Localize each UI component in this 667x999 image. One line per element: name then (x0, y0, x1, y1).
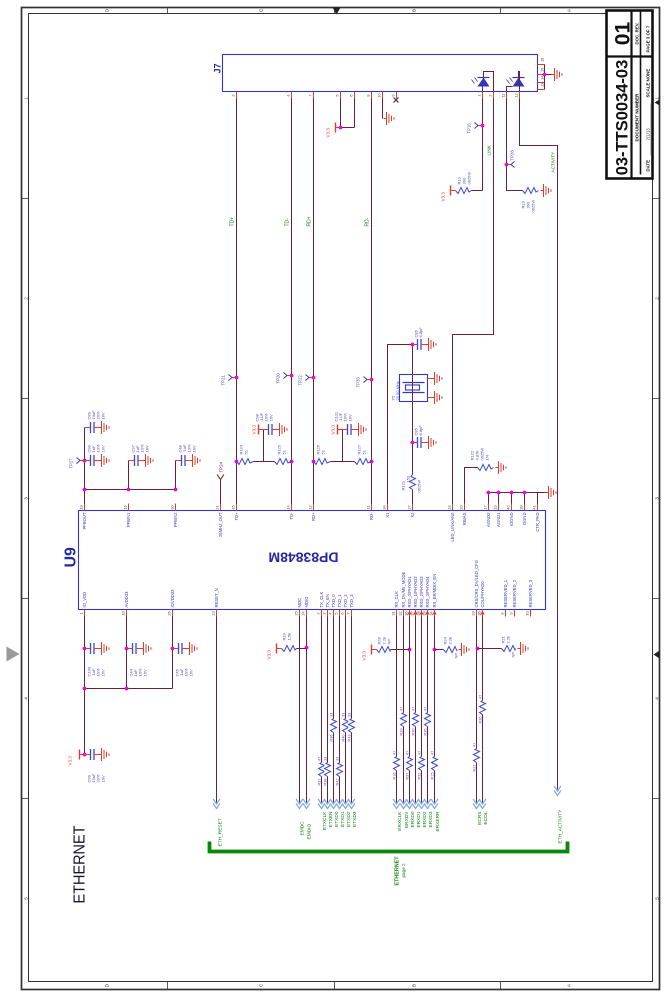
svg-text:page 2: page 2 (401, 863, 406, 877)
svg-text:2.2k: 2.2k (448, 637, 453, 645)
svg-text:10: 10 (525, 611, 530, 616)
junction J7 shield (543, 73, 547, 77)
svg-text:EMDC: EMDC (300, 821, 306, 836)
svg-text:51: 51 (321, 449, 326, 454)
U9 pin 15 TD+ (231, 504, 239, 521)
U9 pin 2 TX_CLK (316, 591, 324, 616)
test point TP22 (306, 375, 314, 381)
net arrow ERXD0 (406, 799, 413, 809)
resistor R26 (478, 695, 485, 724)
junction R19 (305, 646, 309, 650)
svg-text:R18: R18 (392, 773, 396, 780)
U9 pin 11 RD- (366, 504, 374, 520)
wire ERXERR (434, 617, 436, 803)
svg-text:25MHz_OUT: 25MHz_OUT (218, 512, 223, 537)
svg-text:47: 47 (430, 751, 434, 755)
junction TD+ TP21 (235, 376, 239, 380)
svg-text:RD+: RD+ (307, 216, 313, 226)
svg-text:TXD_0: TXD_0 (331, 594, 336, 608)
wire LED_LINK pin22 to J7 pin2 (453, 99, 494, 504)
bus label ETHERNET page 2 (395, 856, 407, 886)
net arrow EMDIO (303, 799, 310, 809)
ground U9 gnd pins (546, 486, 557, 499)
svg-text:TD+: TD+ (230, 217, 236, 227)
resistor R125 (275, 444, 292, 464)
junction TD+ R124 (235, 460, 239, 464)
resistor R22 (472, 743, 479, 772)
J7 pin 7 (308, 92, 314, 99)
svg-text:40: 40 (506, 505, 511, 510)
wire 25MHz_OUT to TP24 (220, 480, 222, 504)
svg-text:PFBIN2: PFBIN2 (173, 512, 178, 527)
svg-text:J7: J7 (213, 63, 223, 73)
ground R23 (541, 184, 552, 197)
svg-text:TXD_2: TXD_2 (343, 594, 348, 608)
svg-text:R22: R22 (472, 765, 476, 772)
svg-text:X2: X2 (410, 512, 415, 518)
net arrow ETH_ACTIVITY (554, 786, 561, 796)
svg-text:47: 47 (478, 695, 482, 699)
J7 pin 1 (477, 92, 483, 99)
net arrow ERXD1 (412, 799, 419, 809)
title block (607, 11, 653, 179)
net arrow ETXD0 (330, 799, 337, 809)
svg-text:1%: 1% (485, 454, 490, 460)
junction TP27 (83, 459, 87, 463)
svg-text:2: 2 (316, 612, 321, 614)
svg-text:IOVDD33: IOVDD33 (170, 589, 175, 608)
svg-text:CRS/CRS_DV/LED_CFG: CRS/CRS_DV/LED_CFG (474, 560, 479, 607)
ground C101 (356, 423, 367, 436)
no-connect J7 pin 9 (394, 98, 399, 103)
svg-text:AVDD33: AVDD33 (124, 591, 129, 608)
svg-text:15: 15 (540, 68, 545, 72)
wire RBIAS to R122 (465, 468, 478, 504)
svg-text:51: 51 (362, 449, 367, 454)
resistor R126 (314, 444, 331, 464)
junction gnd b (497, 491, 501, 495)
wire U9 analog ground bus (487, 493, 546, 504)
wire RD+ net (313, 99, 315, 504)
wire crystal net (412, 345, 414, 475)
net arrow ERXERR (431, 799, 438, 809)
wire MDC (299, 617, 301, 803)
svg-text:16: 16 (123, 505, 128, 509)
wire MDIO (306, 617, 308, 803)
svg-text:V3.3: V3.3 (252, 425, 257, 435)
svg-text:2: 2 (24, 297, 29, 300)
svg-text:4: 4 (328, 612, 333, 615)
svg-text:D: D (105, 8, 110, 12)
svg-text:TX_CLK: TX_CLK (319, 591, 324, 607)
resistor R30 (411, 707, 418, 736)
U9 pin 9 RESERVED_2 (509, 579, 517, 616)
svg-text:C: C (259, 983, 264, 987)
power V3.3 R19 (267, 644, 282, 660)
svg-text:MDIO: MDIO (304, 596, 309, 608)
svg-text:TP28: TP28 (510, 150, 515, 161)
ground crystal case right (428, 378, 432, 380)
test point TP27 (77, 458, 85, 464)
resistor R35 (423, 707, 430, 736)
junction PFBOUT bus b (127, 488, 131, 492)
svg-text:32: 32 (398, 611, 403, 615)
J7 pin 10 (377, 92, 383, 99)
svg-text:RX_DV/MII_MODE: RX_DV/MII_MODE (401, 571, 406, 607)
U9 pin 30 PFBIN2 (170, 504, 178, 528)
resistor R124 (237, 444, 254, 464)
svg-text:16V: 16V (100, 412, 105, 419)
svg-text:34: 34 (382, 505, 387, 510)
svg-text:RESERVED_1: RESERVED_1 (503, 579, 508, 607)
svg-text:V3.3: V3.3 (331, 425, 336, 435)
svg-text:DATE: DATE (646, 160, 651, 172)
svg-text:9: 9 (509, 612, 514, 614)
wire ETXD3 (351, 617, 353, 803)
svg-text:RXD_1/PHYAD2: RXD_1/PHYAD2 (413, 576, 418, 608)
capacitor C85 (413, 437, 426, 448)
svg-text:19: 19 (79, 505, 84, 509)
svg-text:22: 22 (447, 505, 452, 509)
U9 pin 17 AGND2 (483, 504, 491, 527)
wire ERXDV (403, 617, 405, 803)
U9 pin 1 IO_VDD (79, 592, 87, 617)
svg-text:16: 16 (540, 58, 545, 62)
resistor R38 (323, 757, 330, 786)
power V3.3 R10 (441, 186, 456, 202)
svg-text:3: 3 (322, 612, 327, 614)
svg-text:TX_EN: TX_EN (325, 594, 330, 608)
wire ERXD1 (415, 617, 417, 803)
U9 pin 32 RX_DV/MII_MODE (398, 571, 406, 616)
net arrow ECRS (473, 799, 480, 809)
ground C85 (426, 436, 437, 449)
svg-text:23: 23 (211, 611, 216, 615)
U9 pin 10 RESERVED_3 (525, 579, 533, 616)
svg-text:1: 1 (655, 97, 660, 100)
wire ERXD2 (421, 617, 423, 803)
svg-text:ETXD0: ETXD0 (334, 811, 340, 827)
wire X2 to R121 (412, 490, 414, 504)
resistor R18 (392, 751, 399, 780)
J7 pin 3 (231, 92, 237, 99)
svg-text:37: 37 (410, 611, 415, 615)
svg-text:20: 20 (459, 505, 464, 510)
resistor R19 pull-up (282, 632, 307, 651)
wire J7 pin12 ETH_ACTIVITY (520, 99, 558, 790)
ground C97 (143, 454, 154, 467)
svg-text:1: 1 (24, 97, 29, 100)
U9 pin 36 RXD_0/PHYAD1 (404, 576, 412, 617)
svg-text:DP83848M: DP83848M (269, 550, 339, 566)
U9 pin 13 AGND1 (493, 504, 501, 527)
svg-text:AGND2: AGND2 (486, 512, 491, 527)
junction V3.3 main (83, 753, 87, 757)
wire ERXD3 (427, 617, 429, 803)
J7 pin 6 (349, 92, 355, 99)
svg-text:12: 12 (308, 505, 313, 509)
svg-text:V3.3: V3.3 (326, 128, 331, 138)
svg-text:10V: 10V (100, 775, 105, 782)
svg-text:2/1/13: 2/1/13 (646, 128, 651, 141)
J7 pin 13 (538, 83, 545, 90)
svg-text:15: 15 (231, 505, 236, 509)
svg-text:31: 31 (391, 611, 396, 615)
svg-text:ETHERNET: ETHERNET (395, 856, 401, 886)
svg-text:33: 33 (471, 611, 476, 615)
svg-text:24: 24 (301, 611, 306, 616)
svg-text:47: 47 (423, 707, 427, 711)
U9 pin 26 IOVDD33 (167, 589, 175, 617)
svg-text:16V: 16V (100, 445, 105, 452)
svg-text:TXD_1: TXD_1 (337, 594, 342, 608)
svg-text:5: 5 (24, 897, 29, 900)
junction C44 (125, 647, 129, 651)
svg-text:RXD_2/PHYAD3: RXD_2/PHYAD3 (419, 576, 424, 608)
resistor R10 (456, 172, 472, 194)
svg-text:47: 47 (399, 707, 403, 711)
junction iovdd a (83, 687, 87, 691)
svg-text:ETHERNET: ETHERNET (72, 825, 89, 903)
J7 pin 16 (538, 58, 545, 65)
svg-text:TD+: TD+ (234, 512, 239, 521)
svg-text:ETXCLK: ETXCLK (322, 811, 328, 830)
svg-text:ECOL: ECOL (483, 811, 489, 824)
svg-text:B: B (412, 984, 417, 987)
resistor R28 pull-up NP (377, 636, 412, 652)
svg-text:36: 36 (477, 611, 482, 615)
svg-text:RD-: RD- (365, 217, 371, 226)
capacitor C97 (129, 455, 143, 466)
svg-text:2: 2 (655, 297, 660, 300)
svg-text:IOGND: IOGND (509, 513, 514, 527)
svg-text:ERXDV: ERXDV (404, 811, 410, 828)
svg-text:RX_CLK: RX_CLK (394, 591, 399, 607)
svg-text:ETXD3: ETXD3 (352, 811, 358, 827)
junction C100 (83, 647, 87, 651)
svg-text:8: 8 (366, 94, 371, 96)
svg-text:TP21: TP21 (221, 375, 226, 386)
U9 pin 14 TD- (286, 504, 294, 520)
wire J7 pin 10 ground (382, 99, 384, 119)
junction gnd c (510, 491, 514, 495)
resistor R37 (317, 757, 324, 786)
svg-text:33: 33 (335, 757, 339, 761)
svg-text:R40: R40 (341, 735, 345, 742)
svg-text:NP: NP (387, 639, 392, 645)
ground C99 (99, 748, 110, 761)
svg-text:1: 1 (79, 612, 84, 614)
svg-text:47: 47 (417, 751, 421, 755)
junction V3.3 J7 (339, 126, 343, 130)
wire J7 pin11 to R23 (507, 99, 523, 191)
J7 pin 12 (514, 92, 520, 99)
svg-text:TP33: TP33 (356, 377, 361, 388)
svg-text:DOC. REV.: DOC. REV. (635, 22, 640, 44)
svg-text:5: 5 (335, 94, 340, 96)
svg-text:51: 51 (282, 449, 287, 454)
LED inside J7 (link) (472, 78, 490, 87)
svg-text:RXD_3/PHYAD4: RXD_3/PHYAD4 (425, 576, 430, 608)
junction PFBOUT bus c (174, 488, 178, 492)
U9 pin 16 PFBIN1 (123, 504, 131, 528)
svg-text:RD+: RD+ (311, 512, 316, 521)
svg-text:LED_LINK/AN0: LED_LINK/AN0 (450, 512, 455, 542)
wire J7 pin1 LED link cathode (482, 99, 484, 191)
svg-text:A: A (567, 8, 572, 12)
svg-text:150: 150 (406, 475, 411, 482)
svg-text:ERXERR: ERXERR (435, 811, 441, 832)
U9 pin 19 PFBOUT (79, 504, 87, 530)
svg-text:11: 11 (501, 93, 506, 97)
power V3.3 J7 center tap (326, 123, 341, 138)
svg-text:3: 3 (24, 497, 29, 500)
connector J7 body (223, 55, 538, 92)
U9 pin 27 X2 (407, 504, 415, 518)
junction PFBOUT bus a (83, 488, 87, 492)
wire TD- net (291, 99, 293, 504)
svg-text:R20: R20 (399, 729, 403, 736)
svg-text:ETH_RESET: ETH_RESET (218, 818, 224, 846)
svg-text:ERXD1: ERXD1 (416, 811, 422, 827)
resistor R43 (347, 713, 354, 742)
U9 pin 24 MDIO (301, 596, 309, 617)
svg-text:7: 7 (346, 612, 351, 614)
capacitor C86 (413, 339, 426, 350)
J7 pin 5 (335, 92, 341, 99)
svg-text:13: 13 (493, 505, 498, 509)
svg-text:ERXD2: ERXD2 (422, 811, 428, 827)
wire J7 pins 5-6 V3.3 (341, 99, 355, 128)
svg-text:34: 34 (429, 611, 434, 616)
svg-text:RESERVED_2: RESERVED_2 (512, 579, 517, 607)
svg-text:47: 47 (405, 751, 409, 755)
svg-text:B: B (412, 9, 417, 12)
ground C98 (277, 423, 288, 436)
svg-text:TXD_3: TXD_3 (349, 594, 354, 608)
net arrow ERXD2 (418, 799, 425, 809)
svg-text:U9: U9 (63, 547, 80, 568)
svg-text:13: 13 (540, 83, 545, 87)
test point TP20 (284, 373, 292, 379)
svg-text:RBIAS: RBIAS (462, 512, 467, 525)
svg-text:EMDIO: EMDIO (307, 824, 313, 840)
svg-text:TD-: TD- (285, 218, 291, 227)
svg-text:TP16: TP16 (467, 123, 472, 134)
IC U9 DP83848M chip body (79, 511, 546, 610)
svg-text:IO_VDD: IO_VDD (82, 592, 87, 608)
svg-text:25.00 MHz: 25.00 MHz (395, 381, 400, 400)
capacitor C101 (343, 424, 356, 435)
svg-text:ERXCLK: ERXCLK (397, 811, 403, 831)
svg-text:R32: R32 (417, 773, 421, 780)
svg-text:RESET_N: RESET_N (214, 588, 219, 607)
net arrow ETXD3 (348, 799, 355, 809)
svg-text:RD-: RD- (369, 512, 374, 520)
U9 pin 34 X1 (382, 504, 390, 518)
svg-text:TP24: TP24 (219, 461, 224, 472)
svg-text:RESERVED_3: RESERVED_3 (528, 579, 533, 607)
U9 pin 12 RD+ (308, 504, 316, 522)
resistor R32 (417, 751, 424, 780)
J7 pin 2 (488, 92, 494, 99)
ground R122 (496, 461, 507, 474)
svg-text:16V: 16V (100, 669, 105, 676)
U9 pin 36 COL/PHYAD0 (477, 581, 485, 617)
svg-text:ERXD3: ERXD3 (428, 811, 434, 827)
svg-text:7: 7 (308, 94, 313, 96)
svg-text:33: 33 (341, 713, 345, 717)
svg-text:DGND: DGND (522, 513, 527, 525)
junction C85 (411, 441, 415, 445)
resistor R36 (329, 713, 336, 742)
capacitor C45 (173, 643, 187, 654)
power V3.3 main (68, 750, 85, 766)
svg-text:V3.3: V3.3 (441, 192, 446, 202)
svg-text:1.5k: 1.5k (287, 633, 292, 641)
svg-text:PFBIN1: PFBIN1 (126, 512, 131, 527)
U9 pin 25 MDC (294, 598, 302, 617)
svg-text:5: 5 (334, 612, 339, 614)
U9 pin 22 LED_LINK/AN0 (447, 504, 455, 542)
svg-text:4: 4 (24, 697, 29, 700)
svg-text:51: 51 (244, 449, 249, 454)
svg-text:LINK: LINK (487, 144, 492, 155)
U9 pin 39 DGND (519, 504, 527, 525)
junction RD+ TP22 (312, 376, 316, 380)
svg-text:TD-: TD- (289, 512, 294, 520)
svg-text:X1: X1 (385, 512, 390, 518)
net arrow TP24 (217, 475, 224, 480)
svg-text:47: 47 (392, 751, 396, 755)
wire RD termination node (331, 430, 355, 462)
svg-text:16V: 16V (347, 414, 352, 421)
svg-text:4: 4 (655, 697, 660, 700)
svg-text:16V: 16V (142, 669, 147, 676)
svg-text:8: 8 (500, 612, 505, 614)
svg-text:30: 30 (170, 505, 175, 510)
capacitor C100 (85, 643, 99, 654)
wire RD- net (371, 99, 373, 504)
wire ERXD0 (409, 617, 411, 803)
resistor R40 (341, 713, 348, 742)
svg-text:17: 17 (483, 505, 488, 509)
J7 shield pins 13-16 ground wire (545, 65, 552, 90)
svg-text:14: 14 (286, 505, 291, 510)
svg-text:5: 5 (655, 897, 660, 900)
U9 pin 6 TXD_2 (340, 594, 348, 617)
ground R21 (518, 642, 529, 655)
resistor R21 pull-down NP (476, 635, 516, 657)
svg-text:PAGE 3 OF 7: PAGE 3 OF 7 (646, 25, 651, 52)
J7 pin 4 (286, 92, 292, 99)
net arrow ETH_RESET (213, 799, 220, 809)
svg-text:AGND1: AGND1 (496, 512, 501, 527)
svg-text:26: 26 (167, 611, 172, 615)
test point TP28 (507, 162, 515, 168)
wire ETXD2 (345, 617, 347, 803)
svg-text:33: 33 (347, 713, 351, 717)
test point TP33 (364, 377, 372, 383)
capacitor C44 (127, 643, 141, 654)
svg-text:16V: 16V (188, 669, 193, 676)
svg-text:39: 39 (519, 505, 524, 509)
svg-text:1: 1 (477, 94, 482, 96)
svg-text:ECRS: ECRS (477, 812, 483, 825)
wire ETXEN (327, 617, 329, 803)
svg-text:33: 33 (323, 757, 327, 761)
net arrow ETXD2 (342, 799, 349, 809)
